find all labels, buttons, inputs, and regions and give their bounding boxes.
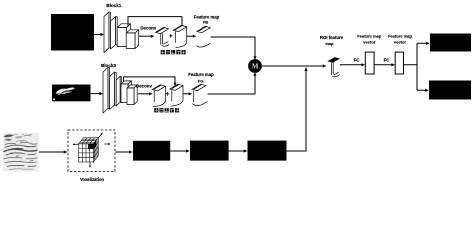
wire image to voxelization — [39, 151, 64, 153]
svg-text:+: + — [169, 33, 173, 40]
svg-text:ROI feature: ROI feature — [320, 35, 344, 40]
conv box 1 — [133, 141, 170, 161]
wire fusion1 to FB — [187, 35, 193, 37]
wire input1 to Block1 — [94, 34, 101, 36]
svg-text:vector: vector — [394, 39, 407, 44]
conv box 2 — [190, 141, 229, 161]
Block1 conv stack — [104, 12, 139, 53]
input box BEV image (row1) — [51, 14, 94, 51]
wire rect1 to rect2 — [374, 64, 391, 66]
input box camera image (row2) — [52, 85, 91, 102]
wire input2 to Block3 — [91, 93, 100, 95]
fc rect 2 — [395, 52, 403, 74]
feature map FG slab — [192, 84, 207, 105]
ROI feature map slab — [328, 58, 340, 77]
voxel highlighted cell — [88, 144, 93, 149]
fusion node M — [248, 59, 262, 73]
svg-text:Feature map: Feature map — [357, 33, 382, 38]
svg-text:Feature map: Feature map — [388, 33, 413, 38]
wire fusion2 to FG — [183, 93, 189, 95]
output box top — [430, 34, 471, 52]
svg-text:map: map — [325, 41, 334, 46]
feature map FB slab — [197, 26, 211, 47]
wire voxelization to conv box1 — [115, 151, 129, 153]
svg-text:M: M — [252, 63, 259, 71]
output box bottom — [429, 81, 471, 100]
point cloud image (bottom left) — [3, 133, 39, 172]
skip connection wire row2 — [124, 77, 176, 83]
wire conv3 up to main line (junction) — [287, 71, 307, 151]
svg-text:Block1: Block1 — [106, 3, 122, 8]
svg-text:Voxelization: Voxelization — [80, 177, 105, 182]
voxelization dashed box — [68, 130, 115, 172]
wire FB to M — [211, 37, 256, 57]
deconv slab row2 — [152, 85, 165, 107]
wire stack2 to deconv slab2 — [138, 93, 149, 95]
wire split to outputs — [404, 43, 427, 90]
svg-text:Deconv: Deconv — [136, 83, 152, 88]
skip connection wire row1 — [128, 17, 182, 27]
fc rect 1 — [365, 52, 374, 74]
wire conv1 to conv2 — [170, 150, 186, 152]
Block3 conv stack — [103, 67, 137, 113]
fusion slab row2 — [170, 84, 183, 106]
svg-text:Block3: Block3 — [101, 63, 117, 68]
svg-text:FC: FC — [384, 58, 391, 63]
fusion slab row1 — [173, 25, 186, 47]
wire M to ROI feature map — [261, 65, 323, 67]
wire conv2 to conv3 — [229, 150, 244, 152]
svg-text:+: + — [166, 91, 170, 98]
voxel cube — [79, 138, 99, 162]
svg-text:Feature map: Feature map — [188, 72, 214, 77]
deconv slab row1 — [156, 27, 170, 46]
voxel axis arrows — [75, 143, 79, 145]
label context-fusion row1 (CJK blobs) — [161, 50, 186, 54]
wire stack1 to deconv slab — [139, 35, 151, 37]
wire FG to M — [208, 76, 256, 94]
svg-text:FC: FC — [354, 58, 361, 63]
label context-fusion row2 (CJK blobs) — [154, 108, 179, 112]
svg-text:FB: FB — [203, 20, 208, 25]
svg-text:Deconv: Deconv — [140, 26, 156, 31]
conv box 3 — [248, 141, 287, 161]
wire ROI to FC rect1 — [340, 64, 362, 66]
svg-text:FG: FG — [198, 78, 204, 83]
svg-text:vector: vector — [363, 39, 376, 44]
